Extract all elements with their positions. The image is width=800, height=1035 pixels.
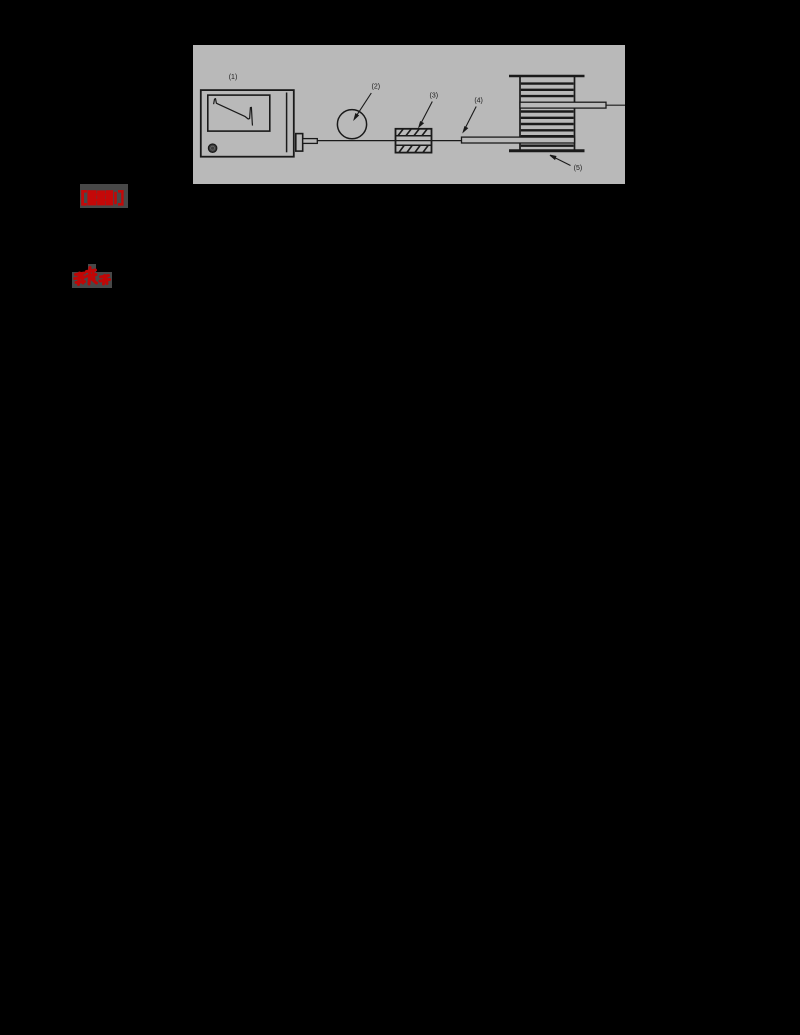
svg-text:(4): (4)	[474, 97, 483, 104]
lens circle (2)	[337, 110, 366, 139]
spool bottom flange	[509, 149, 585, 152]
arrow for (2)	[356, 93, 372, 117]
labels	[229, 74, 582, 172]
fiber bar (4) entering spool	[462, 137, 575, 143]
spool top flange	[509, 75, 585, 77]
arrow for (5)	[553, 157, 571, 166]
arrow for (4)	[465, 107, 477, 130]
svg-text:(5): (5)	[574, 165, 583, 172]
OTDR trace	[214, 99, 253, 126]
wire fiber line from OTDR to bar	[317, 140, 462, 142]
spool windings	[521, 84, 574, 146]
red label B	[72, 272, 112, 288]
OTDR screen	[208, 95, 270, 131]
hatch top band	[398, 129, 427, 135]
svg-text:(1): (1)	[229, 74, 238, 81]
figure panel	[193, 45, 625, 184]
arrow for (3)	[420, 102, 432, 125]
spool left side	[519, 76, 521, 150]
spool right side	[574, 76, 576, 150]
wire fiber line exiting spool right	[606, 104, 625, 106]
hatch bottom band	[399, 146, 428, 153]
spool output bar right	[520, 102, 606, 108]
splice box (3) body	[396, 129, 432, 153]
OTDR connector pin	[303, 139, 318, 144]
spool (5)	[509, 76, 606, 151]
red label A	[80, 184, 128, 208]
OTDR U1 main box	[201, 90, 294, 157]
svg-text:(3): (3)	[430, 92, 439, 99]
OTDR connector flange	[296, 134, 303, 152]
wire through box middle band	[396, 140, 432, 142]
OTDR right inner vertical line	[286, 93, 288, 153]
OTDR knob	[208, 144, 216, 152]
svg-text:(2): (2)	[372, 84, 381, 91]
